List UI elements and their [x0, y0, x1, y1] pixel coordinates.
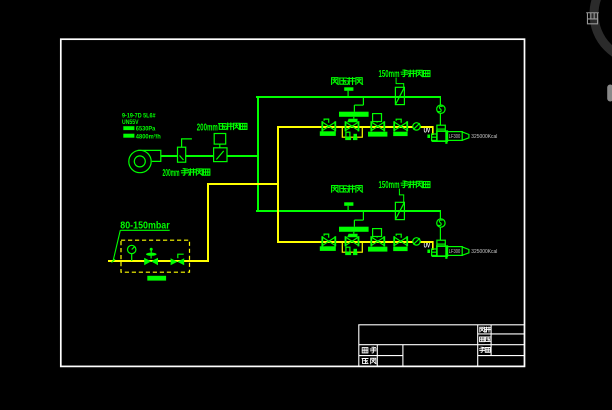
svg-text:UV: UV [424, 243, 431, 250]
svg-text:6530Pa: 6530Pa [136, 126, 156, 133]
svg-text:325000Kcal: 325000Kcal [471, 134, 497, 140]
svg-text:200mm: 200mm [163, 168, 180, 179]
svg-text:325000Kcal: 325000Kcal [471, 249, 497, 255]
svg-text:200mm: 200mm [197, 122, 218, 133]
svg-text:9-19-7D 5L6#: 9-19-7D 5L6# [122, 114, 156, 120]
svg-text:150mm: 150mm [379, 180, 400, 191]
svg-text:4800m³/h: 4800m³/h [136, 133, 161, 140]
svg-text:LF300: LF300 [449, 249, 461, 255]
svg-text:LF300: LF300 [449, 134, 461, 140]
svg-text:UV: UV [424, 128, 431, 135]
